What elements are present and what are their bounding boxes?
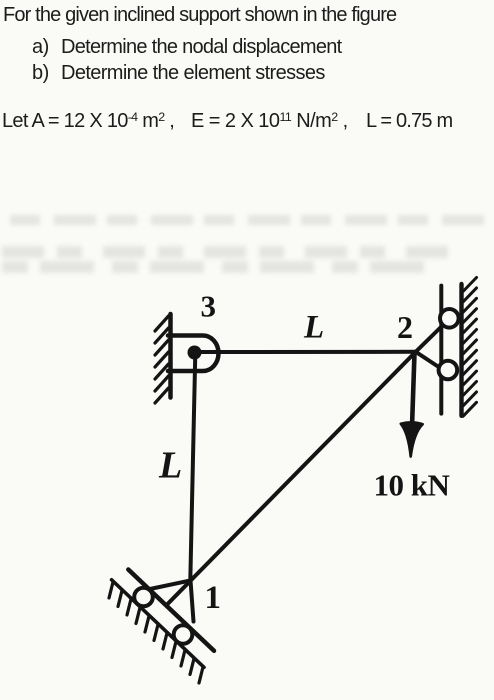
svg-text:L: L — [158, 445, 182, 487]
member 3-1 (vertical, length L) — [190, 353, 195, 580]
roller lower at node 2 — [439, 361, 458, 380]
roller upper at node 2 — [440, 309, 459, 328]
force arrow head — [401, 422, 423, 456]
item b — [32, 62, 49, 85]
left wall line — [168, 314, 173, 398]
ghost band 3 (page bleed-through) — [2, 261, 432, 273]
node1-plate link left — [150, 580, 191, 589]
svg-text:2: 2 — [397, 309, 413, 345]
inclined ground line at node 1 — [112, 580, 204, 668]
member 3-2 (horizontal, length L) — [195, 350, 416, 354]
ghost band 1 (page bleed-through) — [10, 215, 488, 225]
ghost band 2 (page bleed-through) — [2, 246, 452, 258]
node1-plate link lower — [191, 580, 194, 621]
node2-plate link upper — [416, 327, 441, 352]
pin dot node 3 — [188, 346, 202, 360]
inclined roller plate at node 1 — [128, 570, 214, 651]
left wall hatching — [155, 316, 169, 403]
given data line — [2, 110, 174, 133]
roller plate at node 2 — [439, 286, 443, 414]
title line — [3, 4, 396, 27]
svg-text:1: 1 — [205, 580, 222, 616]
inclined ground hatching — [109, 582, 203, 683]
right wall hatching — [463, 278, 477, 417]
svg-text:10 kN: 10 kN — [374, 468, 450, 503]
svg-text:3: 3 — [201, 289, 217, 324]
roller lower at node 1 — [174, 625, 193, 644]
force arrow shaft (10 kN at node 2) — [412, 353, 415, 427]
svg-text:L: L — [303, 310, 324, 346]
item a — [32, 36, 49, 59]
pin bracket at node 3 — [168, 336, 219, 372]
right wall line — [459, 284, 463, 416]
node2-plate link lower — [416, 352, 441, 369]
member 2-1 (diagonal, extended to inclined plate) — [166, 352, 415, 606]
roller upper at node 1 — [134, 588, 153, 607]
